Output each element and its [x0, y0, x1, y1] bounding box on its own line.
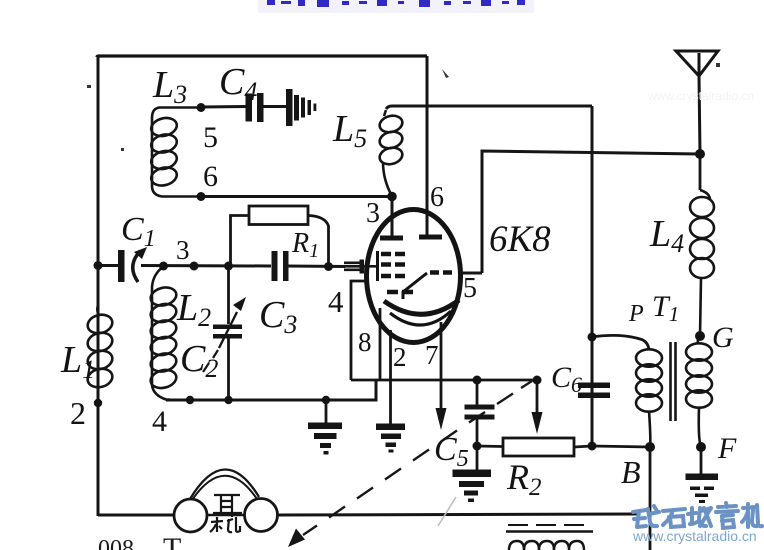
resistor R2 [503, 438, 574, 456]
石 [663, 509, 685, 527]
ground (C5) [476, 446, 479, 470]
wire tube pin3 anode lead [391, 197, 394, 239]
headphones [98, 514, 174, 517]
矿 [633, 506, 659, 527]
node digits [70, 121, 477, 438]
机 [742, 504, 762, 527]
svg-text:5: 5 [463, 273, 477, 304]
capacitor C1 curved plate with arrow [133, 251, 140, 282]
wire node5 to C4 [201, 105, 246, 109]
wire plate lead pin6 vertical [426, 56, 429, 237]
tube hexode grids (dashed rows) [381, 254, 413, 292]
wire L5 top to rail corner [386, 106, 592, 109]
svg-text:2: 2 [393, 342, 407, 372]
wire R1 left branch [231, 216, 250, 267]
svg-text:7: 7 [425, 340, 439, 370]
svg-text:6K8: 6K8 [489, 219, 551, 260]
wire pin5 riser and top horizontal to antenna junction [482, 151, 700, 273]
capacitor C6 [578, 383, 610, 389]
transformer T1 core [671, 342, 676, 421]
transformer T1 secondary [686, 336, 712, 447]
inductor L3 [149, 108, 201, 197]
wire bottom bus to B [592, 446, 650, 447]
capacitor C3 [272, 251, 278, 281]
svg-text:www.crystalradio.cn: www.crystalradio.cn [632, 528, 757, 544]
tube pin5 lead [458, 272, 482, 275]
wire line L3 node6 to tube pin3 junction [201, 195, 392, 198]
wire right rail x592 [591, 106, 594, 446]
svg-text:008: 008 [98, 536, 134, 550]
dashed gang line [303, 381, 532, 535]
tube anode pin6 bar [419, 235, 442, 240]
transformer T1 primary feed wire [592, 335, 649, 350]
音 [716, 503, 738, 528]
wire B down [649, 447, 652, 550]
wire antenna junction to L4 [699, 154, 702, 190]
svg-text:6: 6 [430, 182, 444, 213]
wire top border [97, 56, 427, 57]
svg-text:3: 3 [366, 198, 380, 229]
svg-text:8: 8 [358, 327, 372, 357]
inductor L4 [690, 190, 714, 336]
top blue cut text fragments [258, 0, 534, 13]
wire C5 junction to R2 [477, 445, 503, 448]
headphone label 耳机 [210, 495, 242, 532]
tube anode pin3 bar [380, 236, 403, 241]
svg-text:2: 2 [70, 395, 86, 431]
ground (cathode pin2) [376, 424, 405, 453]
ground (F terminal) [700, 447, 703, 474]
svg-text:T: T [163, 532, 181, 550]
wire bias line y=380 [351, 379, 537, 382]
tube pin7 lead with arrow [440, 322, 443, 412]
svg-text:P: P [628, 301, 644, 327]
op-amp U1 tube 6K8 envelope [367, 210, 461, 343]
resistor R1 [249, 206, 308, 225]
svg-text:4: 4 [328, 284, 344, 319]
svg-text:F: F [717, 432, 737, 465]
svg-text:5: 5 [203, 121, 218, 154]
svg-text:3: 3 [176, 235, 190, 265]
capacitor C2 (variable) [227, 266, 230, 324]
ground (chassis, sideways at C4) [286, 89, 316, 126]
wire left rail [97, 57, 100, 516]
antenna [676, 51, 718, 76]
tube pin2 lead [389, 330, 392, 424]
tube side lead (cathode box) [351, 281, 366, 380]
inductor L5 [378, 110, 404, 196]
wire C4 to ground [263, 105, 287, 108]
tube grid spine [376, 251, 379, 281]
wire R1 right branch [308, 216, 329, 267]
svg-text:www.crystalradio.cn: www.crystalradio.cn [647, 89, 754, 103]
scan specks [87, 63, 720, 151]
svg-text:G: G [712, 321, 734, 354]
R2 wiper arrow [536, 380, 539, 416]
transformer T1 primary [636, 349, 662, 447]
capacitor C5 [476, 380, 479, 405]
svg-text:B: B [621, 454, 641, 490]
watermark 矿石收音机 (blue brush text, drawn) [633, 503, 762, 528]
tube cathode arcs [384, 300, 459, 314]
svg-text:6: 6 [203, 160, 218, 193]
node A main tuning bus y=266 [98, 264, 118, 267]
arrow of C2 [219, 312, 237, 348]
capacitor C1 plate [118, 250, 125, 282]
bottom cut text fragments [98, 532, 181, 550]
bottom cut transformer fragment [506, 525, 593, 550]
收 [688, 508, 711, 526]
ground (tank circuit) [325, 400, 328, 423]
wire R2 right lead [574, 446, 592, 447]
scan scratch faint [438, 497, 456, 526]
capacitor C4 [246, 94, 253, 122]
tube grid pin4 connector [344, 263, 377, 270]
tube pin8 lead [379, 308, 382, 380]
wire bottom line of tank y=400 [166, 380, 376, 400]
svg-text:4: 4 [152, 405, 167, 438]
gang line arrowhead [288, 529, 305, 548]
tube triode grid diagonal [403, 273, 427, 299]
wire C1 to grid connector [141, 266, 345, 267]
inductor L2 [149, 267, 178, 400]
inductor L1 [86, 305, 115, 390]
